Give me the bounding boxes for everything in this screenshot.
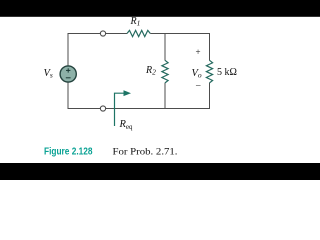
node: top terminal (open circle)	[100, 31, 105, 36]
resistor 5 kOhm (vertical zigzag)	[206, 60, 212, 83]
wire: R2 branch upper stub	[164, 33, 166, 61]
svg-text:R1: R1	[130, 16, 141, 28]
resistor R1 (horizontal zigzag)	[127, 30, 150, 36]
svg-text:+: +	[196, 47, 201, 57]
svg-text:Vo: Vo	[192, 68, 202, 80]
svg-text:R2: R2	[145, 65, 156, 77]
wire: R2 branch lower stub	[164, 83, 166, 109]
wire: top, from R1 to top-right corner	[150, 33, 210, 35]
Req arrow	[115, 90, 132, 126]
svg-text:For Prob. 2.71.: For Prob. 2.71.	[113, 148, 178, 158]
wire: left branch vertical	[67, 33, 69, 109]
svg-text:–: –	[195, 80, 201, 90]
letterbox bar bottom	[0, 163, 320, 180]
wire: right branch lower stub	[209, 83, 211, 109]
wire: right branch upper stub	[209, 33, 211, 61]
node: bottom terminal (open circle)	[100, 106, 105, 111]
voltage source Vs circle	[60, 66, 76, 82]
wire: top, left segment from source branch to R1	[68, 33, 127, 35]
letterbox bar top	[0, 0, 320, 17]
wire: bottom	[68, 108, 211, 110]
resistor R2 (vertical zigzag)	[162, 60, 168, 83]
svg-text:Vs: Vs	[44, 68, 53, 80]
svg-text:Figure 2.128: Figure 2.128	[44, 147, 93, 158]
svg-text:5 kΩ: 5 kΩ	[217, 67, 237, 78]
